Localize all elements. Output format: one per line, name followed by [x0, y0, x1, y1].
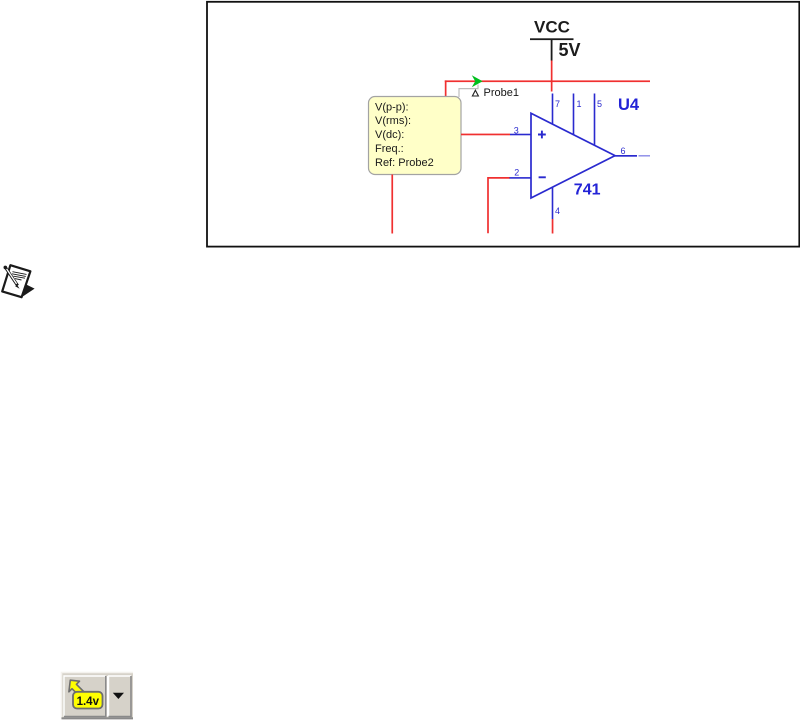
wire VCC vertical red: [551, 61, 553, 92]
divider: [107, 676, 108, 717]
wire pin2 red: [488, 178, 510, 233]
svg-text:6: 6: [621, 146, 626, 156]
svg-text:741: 741: [574, 181, 601, 198]
svg-text:VCC: VCC: [534, 18, 570, 37]
left button bevel: [64, 676, 106, 717]
svg-text:5: 5: [597, 99, 602, 109]
probe delta icon: [472, 90, 478, 96]
svg-text:Ref: Probe2: Ref: Probe2: [375, 157, 434, 169]
tooltip Probe2 readings box: [369, 97, 462, 175]
widget face: [62, 673, 134, 720]
probe icon value box: [73, 692, 103, 709]
screenshot frame: [207, 2, 799, 247]
dropdown arrow: [113, 693, 124, 699]
svg-text:7: 7: [555, 99, 560, 109]
right dropdown button: [109, 676, 132, 717]
scribble lines: [12, 272, 27, 280]
wire top horizontal: [445, 80, 650, 82]
wire pin2 blue stub: [510, 177, 532, 179]
wire below tooltip: [391, 175, 393, 234]
power VCC stem: [551, 40, 553, 61]
op-amp U4 triangle: [531, 113, 615, 198]
svg-text:1.4v: 1.4v: [77, 696, 100, 708]
pin 7 line: [552, 94, 554, 125]
wire pin3 blue stub: [510, 134, 532, 136]
svg-text:Freq.:: Freq.:: [375, 143, 404, 155]
svg-text:V(p-p):: V(p-p):: [375, 101, 409, 113]
probe label connector: [459, 85, 478, 98]
toolbar probe button group: [62, 673, 134, 720]
note icon (notepad with pencil): [2, 265, 34, 297]
svg-text:1: 1: [577, 99, 582, 109]
probe Probe1 arrow: [472, 75, 483, 87]
pencil tip: [15, 285, 19, 289]
svg-text:3: 3: [514, 126, 519, 136]
op-amp minus input sign: [539, 176, 546, 178]
pin 6 output wire: [615, 155, 638, 157]
pin 1 line: [573, 94, 575, 136]
page: [2, 265, 30, 297]
pin 4 line: [552, 188, 554, 220]
svg-text:5V: 5V: [559, 40, 581, 60]
wire pin4 red stub: [552, 219, 554, 234]
widget outer highlight: [62, 673, 134, 720]
pencil eraser: [4, 266, 8, 270]
probe icon arrow: [69, 680, 85, 697]
svg-text:U4: U4: [618, 96, 640, 114]
svg-text:V(dc):: V(dc):: [375, 129, 404, 141]
svg-text:V(rms):: V(rms):: [375, 115, 411, 127]
op-amp plus input sign: [538, 131, 546, 139]
pin 6 output wire thin: [639, 155, 651, 156]
pencil body: [6, 268, 18, 286]
shadow: [20, 284, 35, 298]
svg-text:4: 4: [555, 206, 560, 216]
svg-text:Probe1: Probe1: [484, 87, 519, 99]
pin 5 line: [594, 94, 596, 146]
widget outer shadow bottom: [62, 717, 134, 719]
svg-text:2: 2: [514, 167, 519, 177]
power VCC bar: [530, 38, 574, 40]
tooltip text: [375, 101, 434, 169]
wire pin3 red: [461, 134, 510, 136]
wire corner vertical into tooltip: [445, 80, 447, 98]
